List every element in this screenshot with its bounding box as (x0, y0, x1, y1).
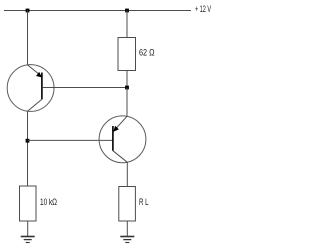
node junction rail/Q1 emitter (26, 9, 30, 13)
wire +12V supply rail (4, 10, 191, 12)
svg-text:10 kΩ: 10 kΩ (40, 197, 57, 207)
node junction R1 / Q1 base / Q2 emitter (125, 86, 129, 90)
node junction Q1 collector / Q2 base (26, 139, 30, 143)
ground (right) (120, 237, 134, 243)
transistor Q1 (PNP left) (7, 65, 54, 112)
wire R2 bottom to ground (27, 221, 29, 237)
node junction rail/R1 (125, 9, 129, 13)
wire Q1 base to node X (43, 87, 127, 89)
transistor Q2 (PNP right) (99, 116, 146, 163)
svg-text:+ 12 V: + 12 V (195, 4, 211, 14)
resistor R1 62 ohm (118, 38, 136, 71)
wire RL bottom to ground (126, 221, 128, 237)
wire R1 bottom to node X (126, 71, 128, 88)
wire node Y to Q2 base (28, 139, 113, 141)
resistor RL load (119, 187, 136, 222)
svg-text:62 Ω: 62 Ω (139, 48, 155, 58)
wire node X to Q2 emitter (126, 88, 128, 117)
resistor R2 10 kohm (20, 186, 37, 221)
wire Q2 collector down to RL (126, 162, 128, 186)
wire rail to Q1 emitter (27, 11, 29, 65)
svg-text:R L: R L (139, 197, 149, 207)
ground (left) (21, 237, 35, 243)
wire Q1 collector down to R2 (27, 111, 29, 186)
wire rail to R1 top (126, 11, 128, 38)
